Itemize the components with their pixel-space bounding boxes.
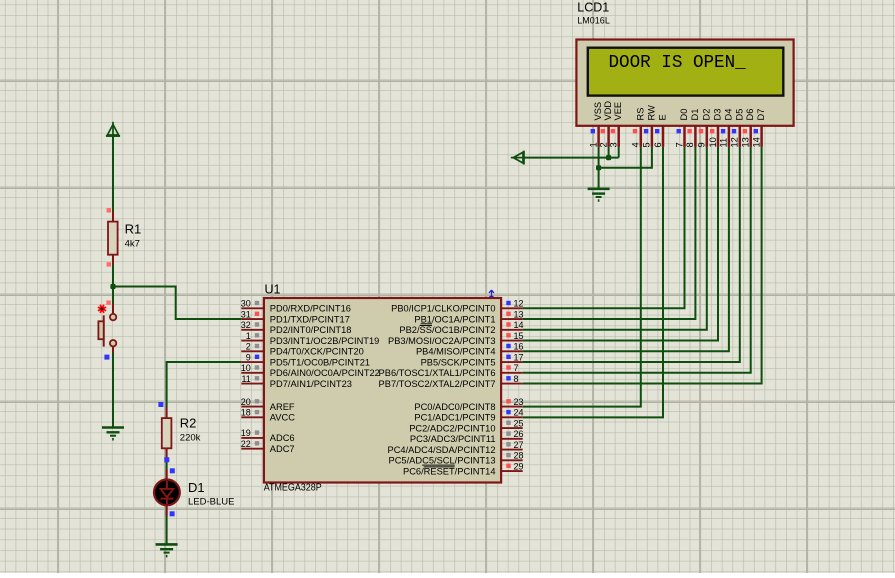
svg-text:PD1/TXD/PCINT17: PD1/TXD/PCINT17 bbox=[270, 314, 350, 324]
pin 7 (PB6) U1 right bbox=[379, 363, 523, 378]
pin 20 (AREF) U1 left bbox=[241, 397, 295, 412]
svg-text:VDD: VDD bbox=[603, 101, 613, 121]
svg-text:PD5/T1/OC0B/PCINT21: PD5/T1/OC0B/PCINT21 bbox=[270, 357, 370, 367]
LED D1 bbox=[154, 468, 180, 516]
wire PD5 to R2 bbox=[167, 362, 242, 406]
LCD LM016L body bbox=[576, 40, 793, 126]
svg-text:5: 5 bbox=[642, 142, 652, 147]
wire R1 to junction bbox=[112, 265, 114, 287]
power terminal +V (top left) bbox=[106, 122, 120, 136]
pin 10 (D3) LCD bbox=[708, 109, 723, 148]
svg-text:15: 15 bbox=[514, 331, 524, 341]
pin 11 (D4) LCD bbox=[719, 109, 734, 148]
svg-text:1: 1 bbox=[588, 142, 598, 147]
svg-text:ADC7: ADC7 bbox=[270, 444, 295, 454]
svg-text:10: 10 bbox=[708, 137, 718, 147]
svg-text:23: 23 bbox=[514, 397, 524, 407]
pin 3 (VEE) LCD bbox=[609, 102, 624, 148]
pin 7 (D0) LCD bbox=[674, 109, 689, 148]
wire PB4 to LCD D4 bbox=[523, 147, 729, 351]
svg-text:27: 27 bbox=[514, 440, 524, 450]
push button bbox=[98, 304, 116, 353]
svg-text:1: 1 bbox=[246, 331, 251, 341]
svg-text:2: 2 bbox=[246, 342, 251, 352]
svg-text:PB5/SCK/PCINT5: PB5/SCK/PCINT5 bbox=[421, 357, 496, 367]
svg-text:30: 30 bbox=[241, 299, 251, 309]
pin 15 (PB3) U1 right bbox=[388, 331, 523, 346]
wire PB7 to LCD D7 bbox=[523, 147, 762, 384]
svg-text:PB6/TOSC1/XTAL1/PCINT6: PB6/TOSC1/XTAL1/PCINT6 bbox=[379, 368, 496, 378]
svg-text:PB0/ICP1/CLKO/PCINT0: PB0/ICP1/CLKO/PCINT0 bbox=[391, 304, 495, 314]
wire VSS to ground bbox=[598, 147, 600, 189]
svg-text:18: 18 bbox=[241, 408, 251, 418]
svg-text:4: 4 bbox=[631, 142, 641, 147]
svg-text:D5: D5 bbox=[734, 109, 744, 121]
svg-text:10: 10 bbox=[241, 363, 251, 373]
pin 8 (PB7) U1 right bbox=[379, 374, 523, 389]
svg-text:3: 3 bbox=[609, 142, 619, 147]
resistor R1 bbox=[107, 208, 118, 267]
svg-text:D0: D0 bbox=[679, 109, 689, 121]
wire PC1 to LCD E bbox=[523, 147, 663, 417]
pin 27 (PC4) U1 right bbox=[388, 440, 524, 455]
svg-text:U1: U1 bbox=[265, 283, 281, 297]
svg-text:ATMEGA328P: ATMEGA328P bbox=[264, 483, 322, 494]
ground (button) bbox=[102, 426, 124, 429]
pin 2 (VDD) LCD bbox=[598, 101, 613, 148]
svg-text:13: 13 bbox=[514, 309, 524, 319]
wire power to R1 bbox=[112, 135, 114, 213]
svg-text:PC3/ADC3/PCINT11: PC3/ADC3/PCINT11 bbox=[410, 434, 496, 444]
pin 5 (RW) LCD bbox=[642, 105, 657, 148]
svg-text:DOOR IS OPEN_: DOOR IS OPEN_ bbox=[609, 53, 746, 74]
svg-text:D6: D6 bbox=[745, 109, 755, 121]
svg-text:6: 6 bbox=[653, 142, 663, 147]
pin 18 (AVCC) U1 left bbox=[241, 408, 295, 423]
svg-text:2: 2 bbox=[598, 142, 608, 147]
ground (LCD) bbox=[588, 188, 610, 191]
pin 30 (PD0) U1 left bbox=[241, 299, 351, 314]
pin 19 (ADC6) U1 left bbox=[241, 428, 295, 443]
wire R2 to D1 bbox=[166, 459, 168, 470]
svg-text:R2: R2 bbox=[180, 415, 197, 430]
svg-text:26: 26 bbox=[514, 429, 524, 439]
svg-text:20: 20 bbox=[241, 397, 251, 407]
pin 12 (PB0) U1 right bbox=[391, 299, 523, 314]
svg-text:PD6/AIN0/OC0A/PCINT22: PD6/AIN0/OC0A/PCINT22 bbox=[270, 368, 380, 378]
pin 4 (RS) LCD bbox=[631, 108, 646, 148]
svg-text:PC6/RESET/PCINT14: PC6/RESET/PCINT14 bbox=[403, 466, 496, 476]
svg-text:D1: D1 bbox=[690, 109, 700, 121]
svg-text:VEE: VEE bbox=[613, 102, 623, 121]
svg-text:8: 8 bbox=[685, 142, 695, 147]
ground (LED) bbox=[156, 543, 178, 546]
pin 25 (PC2) U1 right bbox=[409, 418, 523, 433]
node R2 bottom pin square bbox=[164, 457, 169, 462]
pin 24 (PC1) U1 right bbox=[414, 408, 523, 423]
svg-text:LCD1: LCD1 bbox=[577, 1, 609, 15]
pin 11 (PD7) U1 left bbox=[241, 374, 352, 389]
op: microcontroller U1 box bbox=[264, 298, 501, 483]
svg-text:ADC6: ADC6 bbox=[270, 433, 295, 443]
svg-text:7: 7 bbox=[674, 142, 684, 147]
node VDD junction bbox=[606, 155, 611, 160]
LCD display text bbox=[609, 53, 746, 74]
pin 26 (PC3) U1 right bbox=[410, 429, 524, 444]
wire button to ground bbox=[112, 353, 114, 428]
wire PB2 to LCD D2 bbox=[523, 147, 707, 330]
wire junction to PD1 bbox=[113, 287, 241, 320]
wire VEE down bbox=[618, 147, 620, 158]
svg-text:4k7: 4k7 bbox=[125, 239, 140, 250]
pin 14 (PB2) U1 right bbox=[399, 320, 523, 335]
svg-text:220k: 220k bbox=[180, 433, 201, 444]
wire PB6 to LCD D6 bbox=[523, 147, 751, 373]
svg-text:RW: RW bbox=[646, 105, 656, 121]
svg-text:PC5/ADC5/SCL/PCINT13: PC5/ADC5/SCL/PCINT13 bbox=[389, 456, 496, 466]
svg-text:9: 9 bbox=[246, 352, 251, 362]
svg-text:12: 12 bbox=[730, 137, 740, 147]
hidden power pin marker bbox=[489, 290, 494, 297]
pin 6 (E) LCD bbox=[653, 114, 668, 147]
svg-text:D3: D3 bbox=[713, 109, 723, 121]
pin 2 (PD4) U1 left bbox=[241, 342, 364, 357]
svg-text:PD0/RXD/PCINT16: PD0/RXD/PCINT16 bbox=[270, 304, 351, 314]
svg-text:PC2/ADC2/PCINT10: PC2/ADC2/PCINT10 bbox=[409, 423, 495, 433]
svg-text:24: 24 bbox=[514, 408, 524, 418]
pin 22 (ADC7) U1 left bbox=[241, 439, 295, 454]
svg-text:22: 22 bbox=[241, 439, 251, 449]
pin 9 (D2) LCD bbox=[697, 109, 712, 148]
wire power to VEE bbox=[524, 157, 619, 159]
pin 16 (PB4) U1 right bbox=[416, 342, 524, 357]
svg-text:PD2/INT0/PCINT18: PD2/INT0/PCINT18 bbox=[270, 325, 352, 335]
pin 1 (VSS) LCD bbox=[588, 102, 603, 148]
svg-text:VSS: VSS bbox=[593, 102, 603, 121]
wire PB1 to LCD D1 bbox=[523, 147, 696, 319]
pin 8 (D1) LCD bbox=[685, 109, 700, 148]
svg-text:14: 14 bbox=[751, 137, 761, 147]
svg-text:28: 28 bbox=[514, 451, 524, 461]
wire PC0 to LCD RS bbox=[523, 147, 641, 407]
wire D1 to ground bbox=[166, 516, 168, 545]
pin 32 (PD2) U1 left bbox=[241, 320, 352, 335]
svg-text:19: 19 bbox=[241, 428, 251, 438]
wire PB3 to LCD D3 bbox=[523, 147, 718, 341]
svg-text:PD4/T0/XCK/PCINT20: PD4/T0/XCK/PCINT20 bbox=[270, 347, 364, 357]
svg-text:25: 25 bbox=[514, 418, 524, 428]
svg-text:PD7/AIN1/PCINT23: PD7/AIN1/PCINT23 bbox=[270, 379, 352, 389]
wire RW to VSS bbox=[599, 147, 652, 168]
svg-text:12: 12 bbox=[514, 299, 524, 309]
pin 31 (PD1) U1 left bbox=[241, 309, 350, 324]
pin 13 (PB1) U1 right bbox=[414, 309, 523, 324]
svg-text:PB2/SS/OC1B/PCINT2: PB2/SS/OC1B/PCINT2 bbox=[399, 325, 495, 335]
pin 29 (PC6) U1 right bbox=[403, 461, 524, 476]
pin 23 (PC0) U1 right bbox=[414, 397, 523, 412]
svg-text:PC0/ADC0/PCINT8: PC0/ADC0/PCINT8 bbox=[414, 402, 495, 412]
pin 28 (PC5) U1 right bbox=[389, 451, 524, 466]
button actuator star marker bbox=[98, 305, 106, 313]
resistor R2 bbox=[158, 402, 171, 462]
svg-text:PB4/MISO/PCINT4: PB4/MISO/PCINT4 bbox=[416, 347, 496, 357]
svg-text:PD3/INT1/OC2B/PCINT19: PD3/INT1/OC2B/PCINT19 bbox=[270, 336, 380, 346]
svg-text:AREF: AREF bbox=[270, 402, 295, 412]
svg-text:17: 17 bbox=[514, 352, 524, 362]
wire PB0 to LCD D0 bbox=[523, 147, 685, 308]
svg-text:D4: D4 bbox=[723, 109, 733, 121]
svg-text:D1: D1 bbox=[188, 480, 205, 495]
svg-text:29: 29 bbox=[514, 461, 524, 471]
pin 13 (D6) LCD bbox=[741, 109, 756, 148]
svg-text:PB7/TOSC2/XTAL2/PCINT7: PB7/TOSC2/XTAL2/PCINT7 bbox=[379, 379, 496, 389]
pin 1 (PD3) U1 left bbox=[241, 331, 379, 346]
svg-text:PB3/MOSI/OC2A/PCINT3: PB3/MOSI/OC2A/PCINT3 bbox=[388, 336, 495, 346]
svg-text:11: 11 bbox=[241, 374, 250, 384]
pin 10 (PD6) U1 left bbox=[241, 363, 380, 378]
svg-text:PB1/OC1A/PCINT1: PB1/OC1A/PCINT1 bbox=[414, 314, 495, 324]
pin 12 (D5) LCD bbox=[730, 109, 745, 148]
svg-text:D7: D7 bbox=[756, 109, 766, 121]
svg-text:31: 31 bbox=[241, 309, 251, 319]
svg-text:RS: RS bbox=[635, 108, 645, 121]
LCD screen bbox=[588, 48, 784, 96]
svg-text:7: 7 bbox=[514, 363, 519, 373]
svg-text:9: 9 bbox=[697, 142, 707, 147]
svg-text:8: 8 bbox=[514, 374, 519, 384]
node VSS/RW junction bbox=[596, 165, 601, 170]
svg-text:14: 14 bbox=[514, 320, 524, 330]
wire junction to button bbox=[112, 287, 114, 304]
wire VDD down bbox=[608, 147, 610, 158]
power terminal (LCD supply) bbox=[511, 151, 524, 165]
node junction A bbox=[110, 284, 115, 289]
svg-text:PC1/ADC1/PCINT9: PC1/ADC1/PCINT9 bbox=[414, 413, 495, 423]
button pin squares bbox=[106, 301, 110, 305]
pin 9 (PD5) U1 left bbox=[241, 352, 370, 367]
svg-text:PC4/ADC4/SDA/PCINT12: PC4/ADC4/SDA/PCINT12 bbox=[388, 445, 496, 455]
svg-text:32: 32 bbox=[241, 320, 251, 330]
svg-text:LM016L: LM016L bbox=[577, 16, 610, 26]
svg-text:AVCC: AVCC bbox=[270, 413, 295, 423]
svg-text:D2: D2 bbox=[701, 109, 711, 121]
svg-text:E: E bbox=[658, 114, 668, 120]
svg-text:11: 11 bbox=[719, 138, 729, 148]
svg-text:16: 16 bbox=[514, 342, 524, 352]
wire PB5 to LCD D5 bbox=[523, 147, 740, 362]
pin 14 (D7) LCD bbox=[751, 109, 766, 148]
svg-text:13: 13 bbox=[741, 137, 751, 147]
pin 17 (PB5) U1 right bbox=[421, 352, 524, 367]
svg-text:R1: R1 bbox=[125, 222, 142, 237]
svg-text:LED-BLUE: LED-BLUE bbox=[188, 497, 234, 508]
